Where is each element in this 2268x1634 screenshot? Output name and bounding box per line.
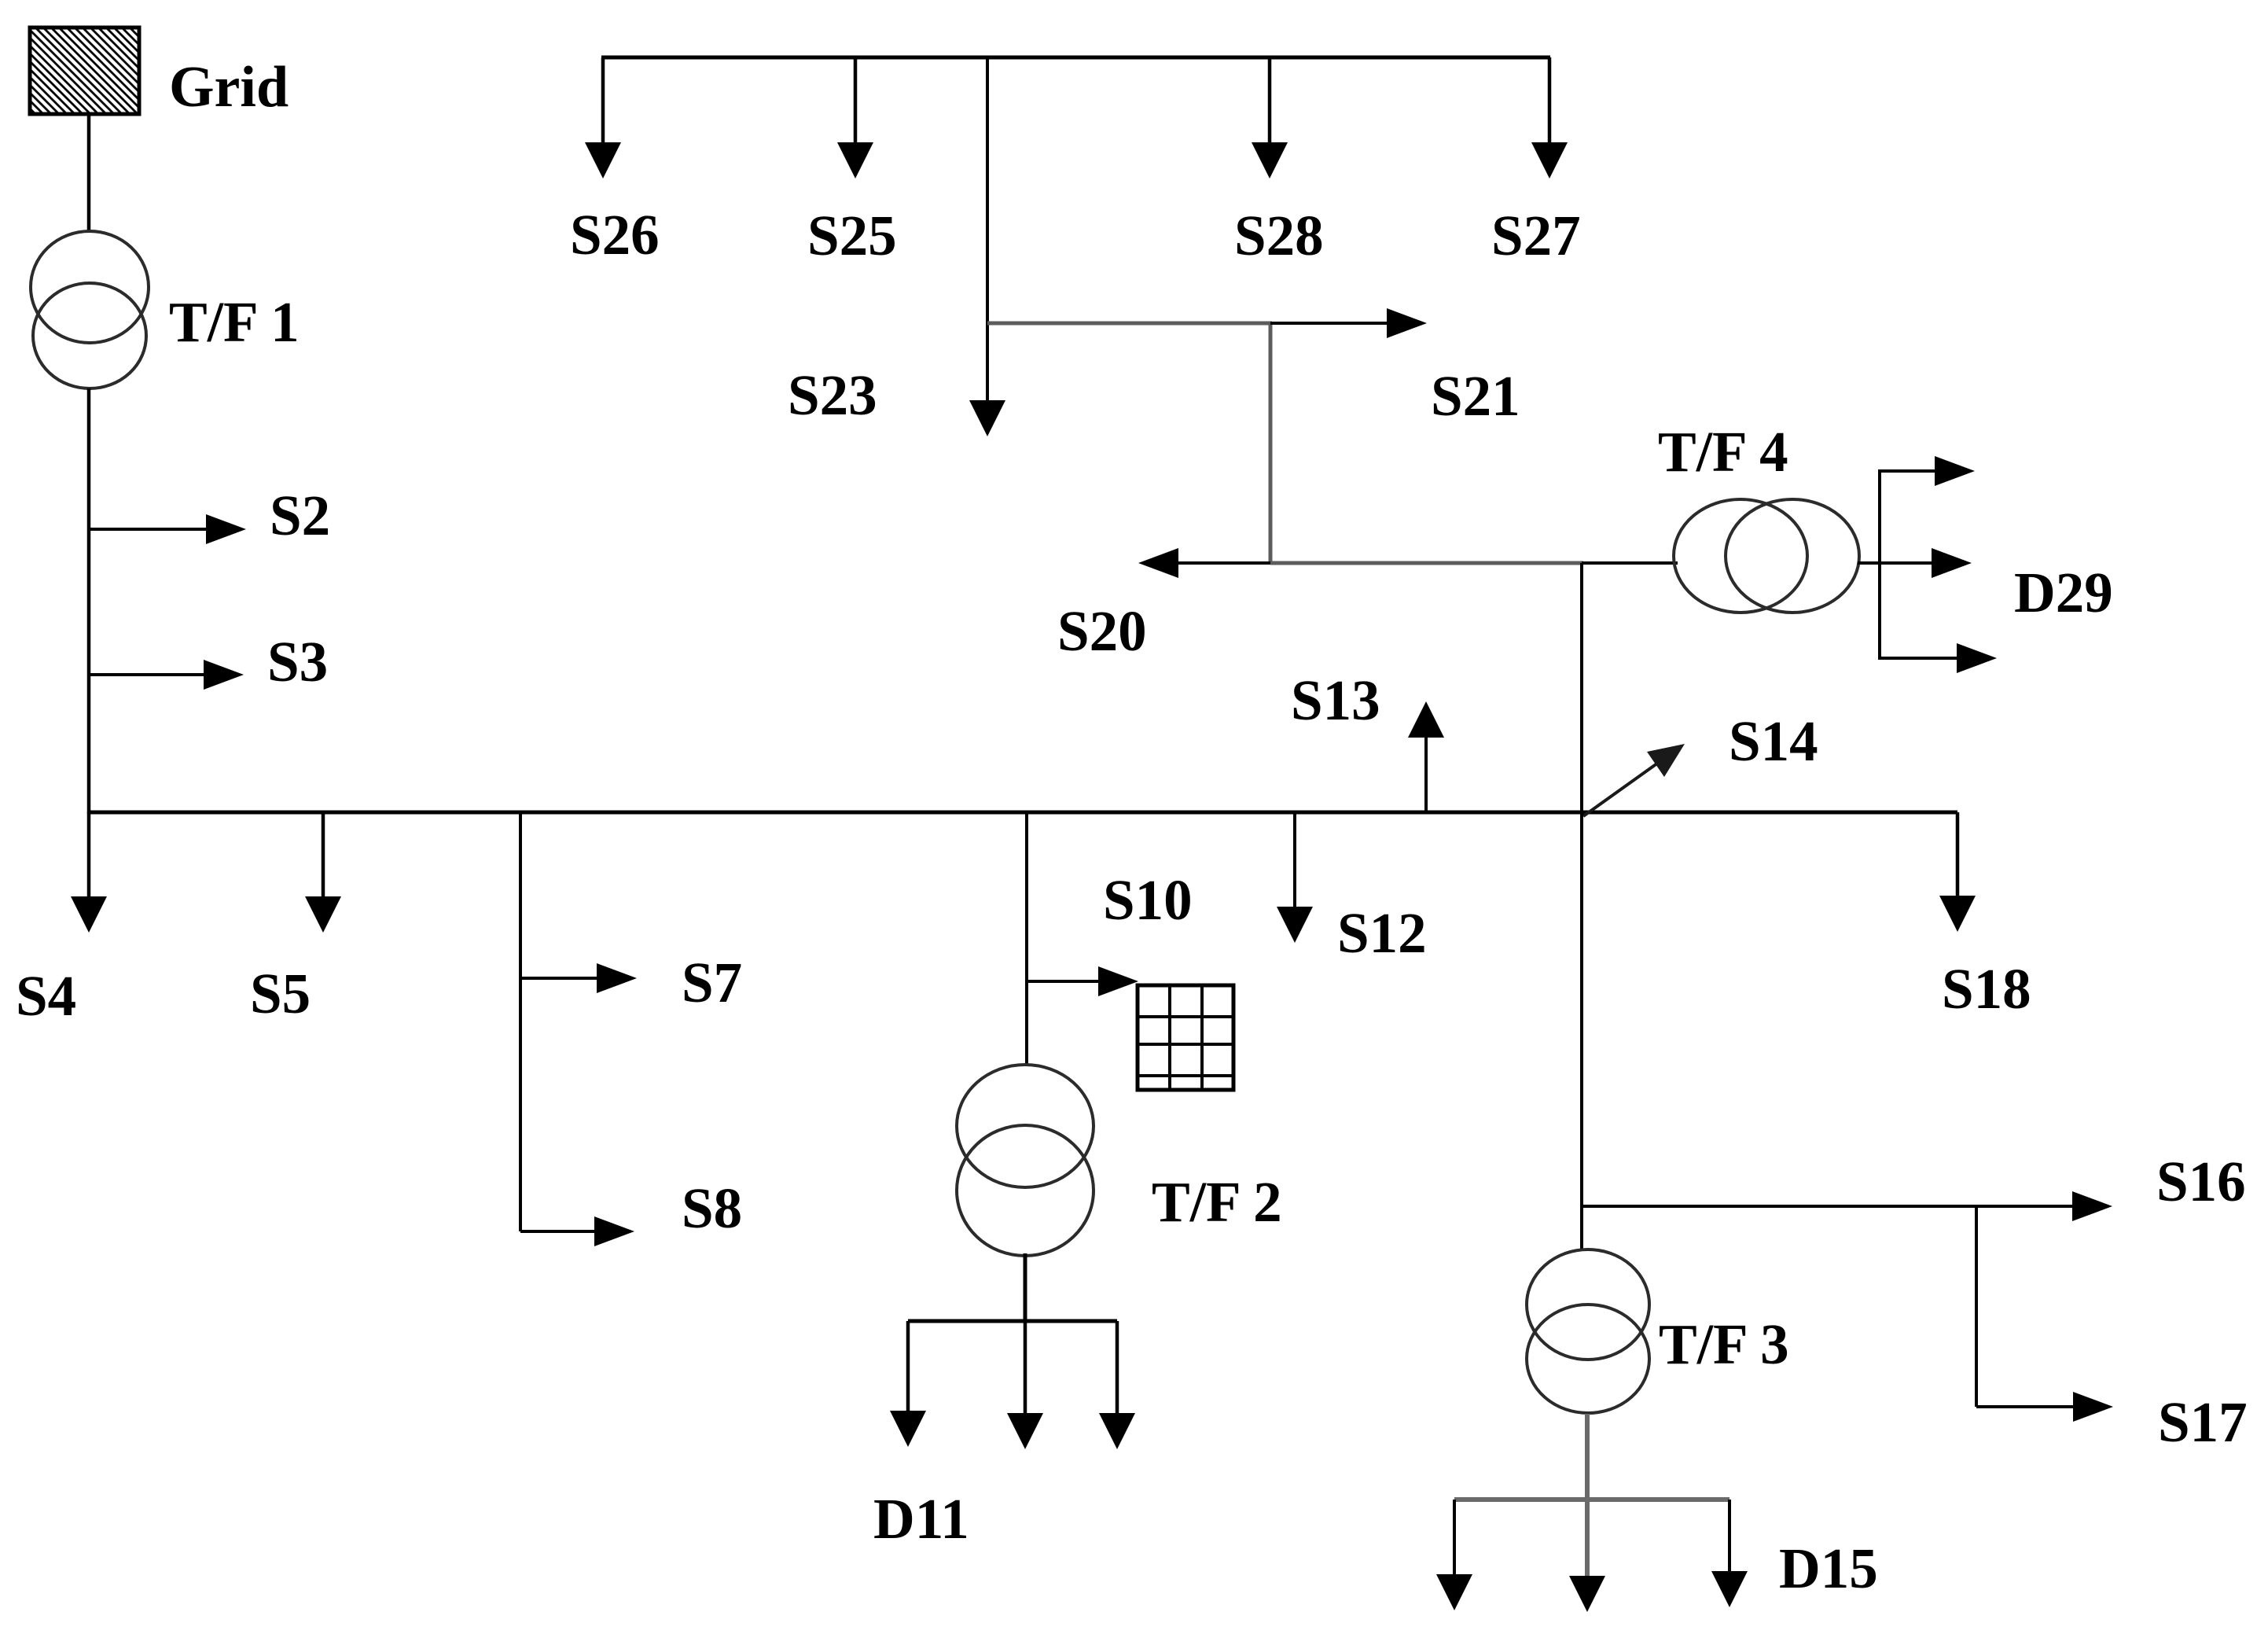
load arrow S18 (1939, 812, 1976, 932)
load arrow D29 top (1880, 456, 1975, 486)
svg-text:D15: D15 (1779, 1536, 1878, 1600)
svg-text:S3: S3 (267, 630, 328, 694)
svg-text:T/F 4: T/F 4 (1658, 420, 1788, 484)
connector S23 to S21 node (gray) (987, 322, 1272, 326)
svg-text:T/F 2: T/F 2 (1152, 1170, 1282, 1234)
load arrow S12 (1277, 812, 1313, 943)
load arrow S17 (1976, 1392, 2113, 1422)
source arrow S13 (1408, 701, 1444, 812)
transformer T/F4 (1674, 499, 1859, 613)
wire T/F2 to D11 header (1024, 1253, 1027, 1323)
grid source box (30, 28, 139, 114)
svg-text:S13: S13 (1291, 668, 1380, 732)
load arrow S27 (1531, 57, 1568, 178)
load arrow D29 bottom (1880, 643, 1997, 673)
svg-text:T/F 1: T/F 1 (169, 290, 300, 354)
wire S16 branch (1582, 1205, 2077, 1208)
feeder wire to T/F2 (1025, 812, 1028, 1066)
wire S17 drop (1975, 1206, 1978, 1407)
transformer T/F3 (1527, 1249, 1649, 1413)
load arrow S3 (89, 660, 244, 690)
load arrow S7 (520, 963, 637, 993)
wire to T/F4 (1582, 561, 1678, 565)
load arrow S23 head (969, 400, 1005, 436)
load arrow D11 right (1099, 1321, 1135, 1449)
load arrow S28 (1252, 57, 1288, 178)
svg-text:Grid: Grid (169, 55, 289, 120)
svg-text:S25: S25 (807, 204, 897, 267)
svg-text:S5: S5 (250, 962, 311, 1025)
load arrow D15 right (1711, 1500, 1748, 1607)
feeder wire S23 (986, 57, 989, 403)
svg-text:S18: S18 (1942, 957, 2031, 1021)
arrow head S16 (2072, 1191, 2112, 1221)
load arrow D29 middle (1880, 548, 1972, 578)
svg-text:S26: S26 (570, 203, 660, 267)
top distribution line (601, 56, 1550, 60)
D11 header bar (908, 1319, 1117, 1323)
svg-text:S2: S2 (270, 484, 330, 547)
load arrow D15 middle (gray stem) (1569, 1500, 1605, 1612)
svg-text:D11: D11 (873, 1487, 969, 1551)
transformer T/F2 (957, 1065, 1094, 1256)
wire T/F3 to D15 header (gray) (1585, 1414, 1590, 1502)
svg-text:S16: S16 (2156, 1150, 2246, 1213)
svg-text:S21: S21 (1431, 364, 1520, 428)
wire T/F4 branch vertical upper (1580, 563, 1583, 812)
load arrow S26 (585, 57, 621, 178)
svg-text:T/F 3: T/F 3 (1659, 1312, 1789, 1376)
wire bus to T/F3 (1580, 812, 1583, 1250)
source arrow S14 (1583, 744, 1685, 816)
svg-text:S10: S10 (1103, 868, 1193, 932)
wire T/F1 to main bus (87, 388, 91, 814)
load arrow S5 (305, 812, 341, 933)
main bus (87, 811, 1957, 815)
svg-text:S23: S23 (788, 363, 877, 427)
feeder wire S7/S8 (519, 812, 522, 1231)
wire grid to T/F1 (87, 114, 91, 233)
load arrow S20 (1138, 548, 1270, 578)
svg-text:S4: S4 (16, 964, 76, 1028)
svg-text:S8: S8 (682, 1176, 742, 1240)
PV array grid box at S10 (1138, 985, 1233, 1090)
svg-text:S27: S27 (1491, 204, 1581, 267)
load arrow S25 (837, 57, 873, 178)
load arrow D11 middle (1007, 1321, 1043, 1449)
load arrow S8 (520, 1216, 634, 1246)
svg-text:D29: D29 (2014, 561, 2113, 624)
svg-text:S7: S7 (682, 951, 742, 1014)
svg-text:S12: S12 (1337, 901, 1427, 965)
svg-text:S17: S17 (2158, 1390, 2248, 1454)
svg-text:S28: S28 (1234, 204, 1324, 267)
D15 header bar (gray) (1454, 1497, 1729, 1502)
load arrow S4 (71, 812, 107, 933)
wire S21 node down (gray) (1269, 323, 1273, 563)
wire S20 node to T/F4 branch (gray) (1270, 561, 1583, 565)
load arrow D15 left (1436, 1500, 1472, 1610)
wire T/F4 to D29 riser (1858, 561, 1881, 565)
load arrow D11 left (890, 1321, 926, 1447)
load arrow S10 (1027, 966, 1138, 996)
svg-text:S14: S14 (1729, 709, 1818, 773)
source arrow S21 (1270, 308, 1427, 338)
transformer T/F1 (31, 231, 149, 388)
load arrow S2 (89, 514, 246, 544)
svg-text:S20: S20 (1057, 599, 1147, 663)
D29 riser (1878, 469, 1881, 660)
